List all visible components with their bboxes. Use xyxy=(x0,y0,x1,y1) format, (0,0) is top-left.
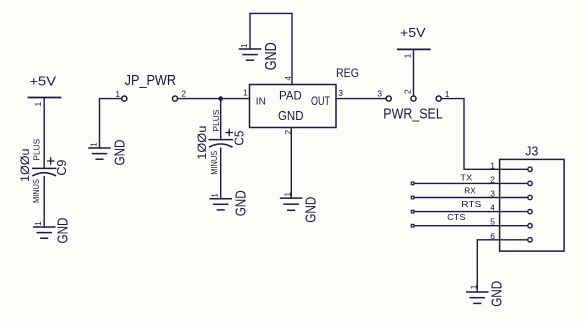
svg-text:1ØØu: 1ØØu xyxy=(18,149,32,183)
wire J3 pin6 to ground xyxy=(477,240,489,292)
ground GND (below J3) xyxy=(467,281,506,307)
wire C5 to ground xyxy=(220,148,222,199)
wire REG GND pin to ground xyxy=(290,128,292,199)
pin 1 (PWR_SEL) xyxy=(436,96,441,101)
net CTS wire xyxy=(414,225,489,227)
ground GND (below JP_PWR) xyxy=(88,139,128,165)
svg-text:MINUS: MINUS xyxy=(209,151,219,175)
svg-text:1ØØu: 1ØØu xyxy=(195,126,209,160)
wire JP_PWR pin2 to REG IN xyxy=(178,98,250,100)
wire C9 to ground xyxy=(43,177,45,227)
capacitor C9 xyxy=(33,158,56,176)
pin 1 (JP_PWR) xyxy=(122,96,127,101)
svg-text:2: 2 xyxy=(181,88,186,98)
svg-text:IN: IN xyxy=(256,95,266,107)
wire JP_PWR pin1 to ground xyxy=(100,99,122,148)
svg-text:MINUS: MINUS xyxy=(31,179,41,203)
svg-text:JP_PWR: JP_PWR xyxy=(125,73,177,89)
svg-text:3: 3 xyxy=(490,189,495,199)
svg-text:GND: GND xyxy=(278,108,304,123)
svg-text:PAD: PAD xyxy=(279,89,302,103)
pin 3 (PWR_SEL) xyxy=(386,96,391,101)
svg-text:1: 1 xyxy=(469,284,479,289)
svg-text:C5: C5 xyxy=(232,131,246,146)
wire junction to C5 xyxy=(220,99,222,140)
svg-text:J3: J3 xyxy=(525,144,538,159)
net RTS wire xyxy=(414,211,489,213)
svg-text:1: 1 xyxy=(243,87,248,97)
svg-text:2: 2 xyxy=(490,174,495,184)
terminal square (CTS) xyxy=(411,224,414,227)
pin 5 (J3) xyxy=(489,225,527,227)
svg-text:4: 4 xyxy=(490,203,495,213)
svg-text:3: 3 xyxy=(377,89,382,99)
svg-text:GND: GND xyxy=(232,190,249,216)
svg-text:CTS: CTS xyxy=(447,212,466,222)
svg-text:1: 1 xyxy=(33,221,43,226)
capacitor C5 xyxy=(209,129,232,147)
junction (IN node) xyxy=(218,96,223,101)
terminal square (TX) xyxy=(411,182,414,185)
svg-text:TX: TX xyxy=(460,172,472,182)
ground GND (above REG, PAD net) xyxy=(239,42,280,70)
supply +5V (left) xyxy=(29,75,61,107)
svg-text:1: 1 xyxy=(445,89,450,99)
svg-text:GND: GND xyxy=(55,217,72,243)
wire REG OUT to PWR_SEL pin3 xyxy=(336,98,386,100)
net RX wire xyxy=(414,197,489,199)
net TX wire xyxy=(414,182,489,184)
pin 6 (J3) xyxy=(489,239,527,241)
svg-text:PLUS: PLUS xyxy=(32,138,42,160)
connector J3 xyxy=(489,144,564,252)
jumper JP_PWR xyxy=(115,73,186,101)
svg-text:C9: C9 xyxy=(55,160,69,176)
svg-text:+5V: +5V xyxy=(30,75,57,89)
svg-text:1: 1 xyxy=(115,89,120,99)
pin 4 (J3) xyxy=(489,211,527,213)
svg-text:PLUS: PLUS xyxy=(211,109,221,131)
svg-text:OUT: OUT xyxy=(311,94,330,108)
ground GND (below C9) xyxy=(33,217,72,243)
terminal square (RTS) xyxy=(411,210,414,213)
pin 2 (JP_PWR) xyxy=(172,96,177,101)
svg-text:1: 1 xyxy=(490,160,495,170)
pin 1 (J3) xyxy=(489,168,527,170)
wire REG PAD to top ground xyxy=(250,13,292,84)
wire PWR_SEL pin1 to J3 pin1 xyxy=(442,99,489,170)
svg-text:RX: RX xyxy=(464,186,476,196)
svg-text:GND: GND xyxy=(488,281,505,307)
jumper PWR_SEL xyxy=(383,89,449,123)
pin 2 (J3) xyxy=(489,182,527,184)
svg-text:REG: REG xyxy=(336,66,359,80)
svg-text:GND: GND xyxy=(112,139,129,165)
svg-text:1: 1 xyxy=(283,192,293,197)
supply +5V (right) xyxy=(398,26,430,59)
ground GND (below C5) xyxy=(210,190,250,216)
wire +5V to C9 xyxy=(43,98,45,169)
svg-text:1: 1 xyxy=(402,53,412,58)
svg-text:1: 1 xyxy=(33,102,43,107)
svg-text:1: 1 xyxy=(88,142,98,147)
terminal square (RX) xyxy=(411,196,414,199)
svg-text:+5V: +5V xyxy=(400,26,426,40)
ground GND (below REG) xyxy=(281,192,320,223)
svg-text:GND: GND xyxy=(302,197,319,223)
svg-text:6: 6 xyxy=(490,231,495,241)
pin 3 (J3) xyxy=(489,197,527,199)
svg-text:2: 2 xyxy=(402,89,412,94)
svg-text:1: 1 xyxy=(239,43,249,48)
regulator REG (U box) xyxy=(243,66,359,135)
wire +5V to PWR_SEL pin2 xyxy=(413,49,415,95)
svg-text:3: 3 xyxy=(338,88,343,98)
svg-text:1: 1 xyxy=(210,193,220,198)
svg-text:5: 5 xyxy=(490,217,495,227)
svg-text:PWR_SEL: PWR_SEL xyxy=(383,107,443,123)
pin 2 (PWR_SEL) xyxy=(411,96,416,101)
svg-text:RTS: RTS xyxy=(461,199,481,209)
svg-text:GND: GND xyxy=(263,42,280,70)
